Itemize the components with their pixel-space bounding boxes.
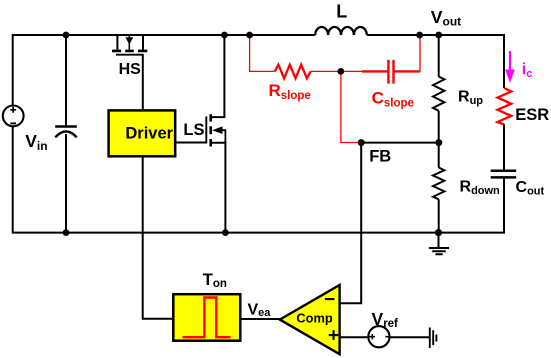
capacitor Cout: [491, 171, 517, 178]
wire input cap bottom lead: [65, 134, 67, 233]
voltage source Vref: [368, 326, 390, 347]
svg-text:+: +: [328, 326, 339, 347]
wire LS drain: [211, 35, 225, 117]
node top rail Cin: [63, 32, 70, 39]
svg-text:ESR: ESR: [515, 106, 549, 124]
node top rail Cslope return: [416, 32, 423, 39]
capacitor Cslope: [388, 60, 393, 84]
resistor ESR: [498, 88, 512, 125]
wire top rail right: [367, 35, 504, 88]
op-amp Comp: [280, 285, 340, 354]
transistor Q2 LS channel bars: [209, 114, 212, 146]
svg-text:Rup: Rup: [458, 89, 483, 107]
svg-text:Rdown: Rdown: [460, 178, 501, 197]
wire top rail left: [13, 35, 316, 105]
wire LS source: [211, 143, 226, 233]
node top rail LS drain: [221, 32, 228, 39]
node FB: [358, 139, 365, 146]
transistor Q1 HS leads: [117, 35, 143, 50]
svg-text:Comp: Comp: [296, 310, 332, 325]
svg-text:Cslope: Cslope: [372, 88, 414, 109]
inductor L: [315, 27, 367, 35]
svg-text:Vout: Vout: [431, 7, 461, 29]
svg-text:L: L: [336, 2, 347, 22]
node top rail slope tap: [246, 32, 253, 39]
wire HS gate to Driver: [142, 55, 144, 111]
wire Rdown bottom lead: [438, 199, 440, 232]
resistor Rdown: [433, 168, 444, 200]
wire Rslope tap (red): [250, 36, 275, 71]
svg-text:ic: ic: [522, 61, 533, 80]
svg-text:LS: LS: [183, 121, 204, 139]
wire slope node to FB (red): [341, 71, 361, 142]
capacitor Cin: [55, 127, 77, 138]
svg-text:Rslope: Rslope: [269, 81, 311, 102]
wire Cslope to Vout rail (red): [419, 36, 421, 71]
voltage source Vin: [3, 106, 24, 127]
transistor Q1 HS body stem: [128, 35, 130, 50]
resistor Rslope: [275, 65, 311, 79]
svg-text:HS: HS: [119, 61, 142, 78]
wire Rup bottom lead: [438, 111, 440, 143]
node bottom rail Cin: [63, 229, 70, 236]
wire comparator minus to FB: [340, 143, 362, 304]
wire Rup top lead: [438, 35, 440, 77]
svg-text:FB: FB: [369, 148, 391, 166]
wire Driver to Ton: [143, 156, 174, 318]
node top rail Rup: [435, 32, 442, 39]
wire Rdown top lead: [438, 143, 440, 168]
svg-text:−: −: [324, 289, 335, 310]
transistor Q1 HS gate plate: [116, 54, 144, 56]
transistor Q2 LS body arrow: [212, 126, 222, 134]
transistor Q2 LS body tie: [221, 130, 225, 143]
ground main bars: [429, 248, 449, 254]
svg-text:Vref: Vref: [372, 309, 399, 330]
wire FB to divider: [361, 142, 439, 144]
svg-text:Vin: Vin: [25, 131, 47, 153]
wire Vref to ground: [390, 336, 429, 338]
ground main stub: [438, 233, 440, 248]
wire comparator plus to Vref: [340, 336, 368, 338]
wire Driver to LS gate: [175, 142, 206, 144]
svg-text:Vea: Vea: [248, 301, 272, 319]
node bottom rail ground: [435, 229, 442, 236]
ground right bars: [430, 328, 437, 348]
svg-text:Driver: Driver: [125, 124, 173, 142]
node bottom rail LS source: [222, 229, 229, 236]
wire Rslope to node (red): [311, 70, 362, 72]
node slope junction: [337, 68, 344, 75]
resistor Rup: [433, 77, 444, 111]
svg-text:Ton: Ton: [203, 271, 227, 290]
wire Cslope left lead (red): [362, 70, 387, 72]
Ton box: [173, 294, 240, 341]
wire Cslope right lead (red): [395, 70, 421, 72]
wire input cap top lead: [65, 35, 67, 126]
wire Ton to comparator: [240, 318, 279, 320]
svg-text:Cout: Cout: [516, 179, 545, 198]
transistor Q2 LS gate plate: [205, 117, 207, 144]
Ton pulse waveform: [183, 298, 231, 338]
transistor Q1 HS channel bars: [112, 50, 147, 53]
transistor Q1 HS body arrow: [125, 37, 133, 44]
wire left rail bottom + bottom rail + Cout riser: [13, 127, 504, 233]
node divider mid: [435, 139, 442, 146]
Driver box: [109, 110, 176, 156]
wire ESR to Cout: [503, 125, 505, 170]
current arrow ic: [505, 51, 515, 83]
